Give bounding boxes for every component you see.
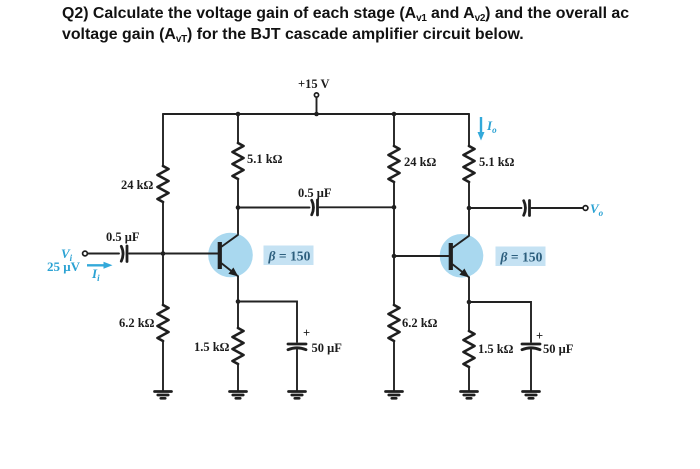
ground (2nd bias divider) xyxy=(386,392,403,399)
arrow Io output current xyxy=(478,117,498,141)
svg-text:+15 V: +15 V xyxy=(298,77,330,91)
wire emitter node 2 to bypass cap branch (Q2) xyxy=(469,302,531,342)
resistor R8 1.5 kOhm (2nd stage) xyxy=(464,331,514,367)
capacitor C2 interstage 0.5uF xyxy=(298,186,332,215)
capacitor C4 bypass 50uF (2nd stage) xyxy=(522,329,574,356)
title text xyxy=(62,4,629,46)
node: rail junction col B xyxy=(236,112,241,117)
capacitor C3 bypass 50uF xyxy=(288,326,342,355)
wire rail to 24k (2nd) xyxy=(393,114,395,146)
svg-text:0.5 μF: 0.5 μF xyxy=(106,230,140,244)
svg-text:25 μV: 25 μV xyxy=(47,259,81,274)
+15 V supply terminal xyxy=(298,77,330,114)
ground (Q1 emitter) xyxy=(230,392,247,399)
wire base node down to 6.2k (2nd) xyxy=(393,256,395,305)
resistor R6 5.1 kOhm (2nd stage) xyxy=(464,146,515,182)
wire 5.1k to collector node xyxy=(237,179,239,235)
wire 5.1k(2) to output node xyxy=(468,182,470,236)
wire 6.2k to ground xyxy=(162,341,164,391)
svg-text:Io: Io xyxy=(486,118,497,135)
resistor R3 5.1 kOhm xyxy=(233,143,283,179)
svg-text:6.2 kΩ: 6.2 kΩ xyxy=(402,316,438,330)
wire C5 to output terminal xyxy=(532,207,583,209)
arrow Ii input current xyxy=(87,262,113,283)
wire rail to 5.1k xyxy=(237,114,239,143)
wire 6.2k(2) to ground xyxy=(393,341,395,391)
wire Q2 emitter lead down xyxy=(468,277,470,302)
wire C2 to node D xyxy=(320,206,395,208)
wire R1 to input node xyxy=(162,202,164,254)
svg-text:6.2 kΩ: 6.2 kΩ xyxy=(119,316,155,330)
beta label box Q1 xyxy=(264,246,314,266)
capacitor C1 input 0.5uF xyxy=(106,230,140,262)
transistor Q2 highlight circle xyxy=(440,234,484,278)
wire emitter node to bypass cap branch (Q1) xyxy=(238,302,297,343)
svg-text:+: + xyxy=(303,326,310,340)
svg-text:+: + xyxy=(536,329,543,343)
wire base lead Q1 xyxy=(163,253,219,255)
wire Q1 emitter lead down xyxy=(237,276,239,301)
svg-text:1.5 kΩ: 1.5 kΩ xyxy=(194,340,230,354)
svg-text:1.5 kΩ: 1.5 kΩ xyxy=(478,342,514,356)
ground (C3) xyxy=(289,392,306,399)
svg-text:β = 150: β = 150 xyxy=(268,249,311,264)
node A input base node xyxy=(161,251,166,256)
node: Q2 emitter node xyxy=(467,300,472,305)
wire C3 to ground xyxy=(296,350,298,391)
ground (C4) xyxy=(523,392,540,399)
node: rail junction col D xyxy=(392,112,397,117)
wire emitter node to 1.5k (Q2) xyxy=(468,302,470,331)
wire left bias column upper (rail to 24k) xyxy=(162,114,164,166)
svg-text:50 μF: 50 μF xyxy=(543,342,574,356)
wire rail right corner to 5.1k (2nd) xyxy=(468,114,470,146)
svg-text:24 kΩ: 24 kΩ xyxy=(404,155,437,169)
resistor R4 24 kOhm (2nd stage) xyxy=(389,146,437,182)
node: Q2 base node xyxy=(392,254,397,259)
svg-text:Ii: Ii xyxy=(91,266,100,283)
transistor Q1 highlight circle xyxy=(208,233,253,278)
wire 1.5k(2) to ground xyxy=(468,367,470,391)
resistor R2 6.2 kOhm xyxy=(119,305,169,341)
input terminal Vi xyxy=(83,251,88,256)
node: rail junction at +15V xyxy=(314,112,319,117)
svg-text:50 μF: 50 μF xyxy=(312,341,343,355)
output terminal Vo xyxy=(583,206,588,211)
node: interstage node D xyxy=(392,205,397,210)
wire 24k to interstage node xyxy=(393,182,395,256)
svg-text:β = 150: β = 150 xyxy=(500,250,543,265)
svg-text:0.5 μF: 0.5 μF xyxy=(298,186,332,200)
node: Q2 collector / output node xyxy=(467,206,472,211)
wire output node to C5 xyxy=(469,207,522,209)
svg-text:24 kΩ: 24 kΩ xyxy=(121,178,154,192)
resistor R1 24 kOhm xyxy=(121,166,169,202)
wire input node down to 6.2k xyxy=(162,254,164,306)
svg-text:5.1 kΩ: 5.1 kΩ xyxy=(479,155,515,169)
node: Q1 emitter node xyxy=(236,299,241,304)
wire C4 to ground xyxy=(530,350,532,391)
wire collector node to C2 xyxy=(238,207,310,209)
wire top supply rail xyxy=(163,113,469,115)
wire terminal to C1 xyxy=(88,253,119,255)
transistor Q2 xyxy=(451,236,470,278)
wire emitter node to 1.5k (Q1) xyxy=(237,302,239,329)
wire 1.5k to ground xyxy=(237,364,239,391)
beta label box Q2 xyxy=(496,247,546,267)
node: Q1 collector / interstage node xyxy=(236,205,241,210)
resistor R7 1.5 kOhm xyxy=(194,328,244,364)
transistor Q1 xyxy=(220,235,239,277)
resistor R5 6.2 kOhm (2nd stage) xyxy=(389,305,438,341)
capacitor C5 output coupling xyxy=(524,201,530,216)
wire C1 to node A xyxy=(129,253,163,255)
ground (left bias divider) xyxy=(155,392,172,399)
ground (Q2 emitter) xyxy=(461,392,478,399)
svg-text:Vo: Vo xyxy=(590,201,604,218)
svg-text:5.1 kΩ: 5.1 kΩ xyxy=(247,152,283,166)
wire base lead Q2 xyxy=(394,255,450,257)
